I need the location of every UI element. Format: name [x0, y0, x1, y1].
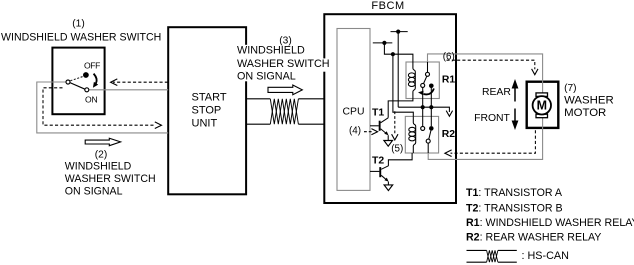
- svg-text:(7): (7): [564, 83, 576, 94]
- relay R1 blade: [424, 76, 427, 83]
- svg-text:(5): (5): [391, 143, 403, 154]
- arrowhead left into switch: [111, 79, 118, 86]
- svg-text:CPU: CPU: [343, 106, 365, 117]
- switch curved arrow: [94, 74, 97, 84]
- label 3 text backgrounds: [236, 45, 307, 59]
- svg-text:R2: REAR WASHER RELAY: R2: REAR WASHER RELAY: [466, 231, 601, 243]
- svg-text:WASHER: WASHER: [564, 95, 614, 107]
- relay R2 blade: [429, 131, 431, 140]
- dashed signal switch to unit (bottom loop): [43, 88, 156, 125]
- power stub 1: [391, 31, 408, 33]
- svg-text:FRONT: FRONT: [474, 113, 510, 124]
- node coil feed junction dot: [391, 52, 395, 56]
- wire R1 common contact down to R2 contact: [422, 87, 424, 126]
- wire R1 coil bottom to T1 collector: [388, 99, 413, 118]
- svg-text:T1: T1: [372, 107, 384, 118]
- relay R1 curved arrow: [424, 89, 434, 95]
- switch OFF position dot: [83, 72, 89, 78]
- block arrow 3: [268, 85, 302, 95]
- svg-text:WINDSHIELD WASHER SWITCH: WINDSHIELD WASHER SWITCH: [1, 32, 161, 44]
- node power stub2 junction dot: [382, 41, 386, 45]
- washer motor M circle: [533, 96, 551, 114]
- svg-text:R1: WINDSHIELD WASHER RELAY: R1: WINDSHIELD WASHER RELAY: [466, 217, 634, 229]
- twisted pair zigzag strand B: [270, 99, 298, 124]
- legend HS-CAN zigzag strand B: [487, 250, 498, 262]
- svg-text:WINDSHIELD: WINDSHIELD: [65, 160, 132, 172]
- wire R1 contact to washer motor top: [428, 54, 543, 95]
- svg-text:(6): (6): [443, 52, 455, 63]
- svg-text:T1: TRANSISTOR A: T1: TRANSISTOR A: [466, 187, 563, 199]
- svg-text:UNIT: UNIT: [192, 118, 218, 130]
- svg-text:ON: ON: [85, 94, 98, 104]
- dashed signal 6 to motor: [447, 60, 535, 69]
- twisted pair zigzag strand A: [270, 99, 298, 124]
- legend HS-CAN symbol lines: [467, 250, 517, 262]
- wire power stub1 down to contact rail: [397, 32, 399, 108]
- relay R1 coil: [413, 62, 415, 99]
- arrowhead 6 down: [532, 69, 538, 75]
- svg-text:T2: TRANSISTOR B: T2: TRANSISTOR B: [466, 202, 563, 214]
- arrowhead 4: [371, 129, 377, 135]
- svg-text:M: M: [537, 99, 547, 113]
- node power stub1 junction dot: [396, 30, 400, 34]
- arrowhead right into unit: [155, 122, 162, 129]
- relay R2 box: [405, 116, 438, 153]
- node rail dot A: [421, 105, 425, 109]
- switch blade: [70, 83, 85, 90]
- svg-text:STOP: STOP: [192, 105, 222, 117]
- wire R1 upper contact lead: [427, 62, 429, 72]
- arrow FRONT down: [514, 109, 516, 122]
- relay R1 contact common: [421, 83, 425, 87]
- dashed signal into switch: [113, 81, 168, 83]
- svg-text:(4): (4): [349, 125, 361, 136]
- wire power stub2 to R1 coil top: [384, 43, 413, 62]
- washer motor terminal top: [536, 93, 548, 97]
- svg-text:(1): (1): [72, 19, 84, 30]
- svg-text:REAR: REAR: [482, 87, 511, 98]
- transistor T2: [370, 170, 379, 172]
- wire R1 NO contact down to R2 NO contact: [430, 88, 432, 126]
- dashed arrow 5 down: [394, 111, 396, 134]
- node rail dot B: [429, 105, 433, 109]
- twisted pair HS-CAN bottom line: [246, 123, 324, 125]
- switch ON contact: [85, 88, 89, 92]
- relay R1 contact NO dot: [429, 84, 434, 89]
- relay R2 contact bottom: [426, 139, 430, 143]
- relay R2 contact NO dot: [429, 126, 434, 131]
- relay R2 coil: [413, 116, 415, 153]
- arrowhead rail branch down: [446, 111, 452, 117]
- power stub 2: [373, 42, 393, 44]
- relay R2 contact left: [421, 126, 425, 130]
- wire switch ON contact to start stop unit: [89, 89, 168, 91]
- svg-text:(2): (2): [95, 150, 107, 161]
- arrowhead left into FBCM: [445, 150, 452, 157]
- ground T1: [384, 141, 393, 147]
- switch dashed blade to OFF: [70, 76, 83, 80]
- svg-text:ON SIGNAL: ON SIGNAL: [65, 186, 123, 198]
- twisted pair HS-CAN top line: [246, 98, 324, 100]
- svg-text:WINDSHIELD: WINDSHIELD: [237, 45, 305, 57]
- CPU box: [337, 29, 370, 191]
- arrow REAR up: [514, 88, 516, 102]
- block arrow 2: [85, 138, 120, 146]
- relay R1 box: [406, 62, 439, 99]
- arrowhead 5: [392, 134, 398, 140]
- transistor T1: [370, 125, 379, 127]
- start stop unit box: [168, 27, 246, 194]
- wire R2 bottom contact lead: [427, 143, 429, 153]
- wire to R2 coil top: [393, 54, 413, 116]
- wire contact rail: [398, 107, 449, 112]
- svg-text:WASHER SWITCH: WASHER SWITCH: [65, 173, 156, 185]
- svg-text:FBCM: FBCM: [371, 0, 404, 12]
- svg-text:ON SIGNAL: ON SIGNAL: [237, 71, 296, 83]
- dashed arrow 4 to T1: [364, 131, 372, 133]
- svg-text:MOTOR: MOTOR: [564, 107, 606, 119]
- svg-text:R2: R2: [442, 129, 456, 140]
- windshield washer switch box: [52, 48, 104, 115]
- svg-text:OFF: OFF: [84, 61, 100, 71]
- svg-text:R1: R1: [442, 74, 456, 85]
- dashed signal motor return to FBCM: [451, 130, 536, 153]
- svg-text:WASHER SWITCH: WASHER SWITCH: [237, 58, 330, 70]
- washer motor box: [527, 82, 559, 128]
- wire R2 contact to washer motor bottom: [428, 115, 542, 160]
- ground T2: [384, 185, 393, 191]
- FBCM module box: [324, 14, 456, 203]
- svg-text:START: START: [192, 91, 227, 103]
- wire R2 coil bottom to T2 collector: [388, 153, 412, 166]
- switch common contact: [66, 80, 70, 84]
- wire switch common to start stop unit (left loop): [37, 82, 168, 133]
- svg-text:T2: T2: [372, 156, 384, 167]
- relay R1 contact upper: [426, 72, 430, 76]
- legend HS-CAN zigzag strand A: [487, 250, 498, 262]
- washer motor terminal bottom: [536, 114, 548, 118]
- svg-text:: HS-CAN: : HS-CAN: [522, 250, 569, 262]
